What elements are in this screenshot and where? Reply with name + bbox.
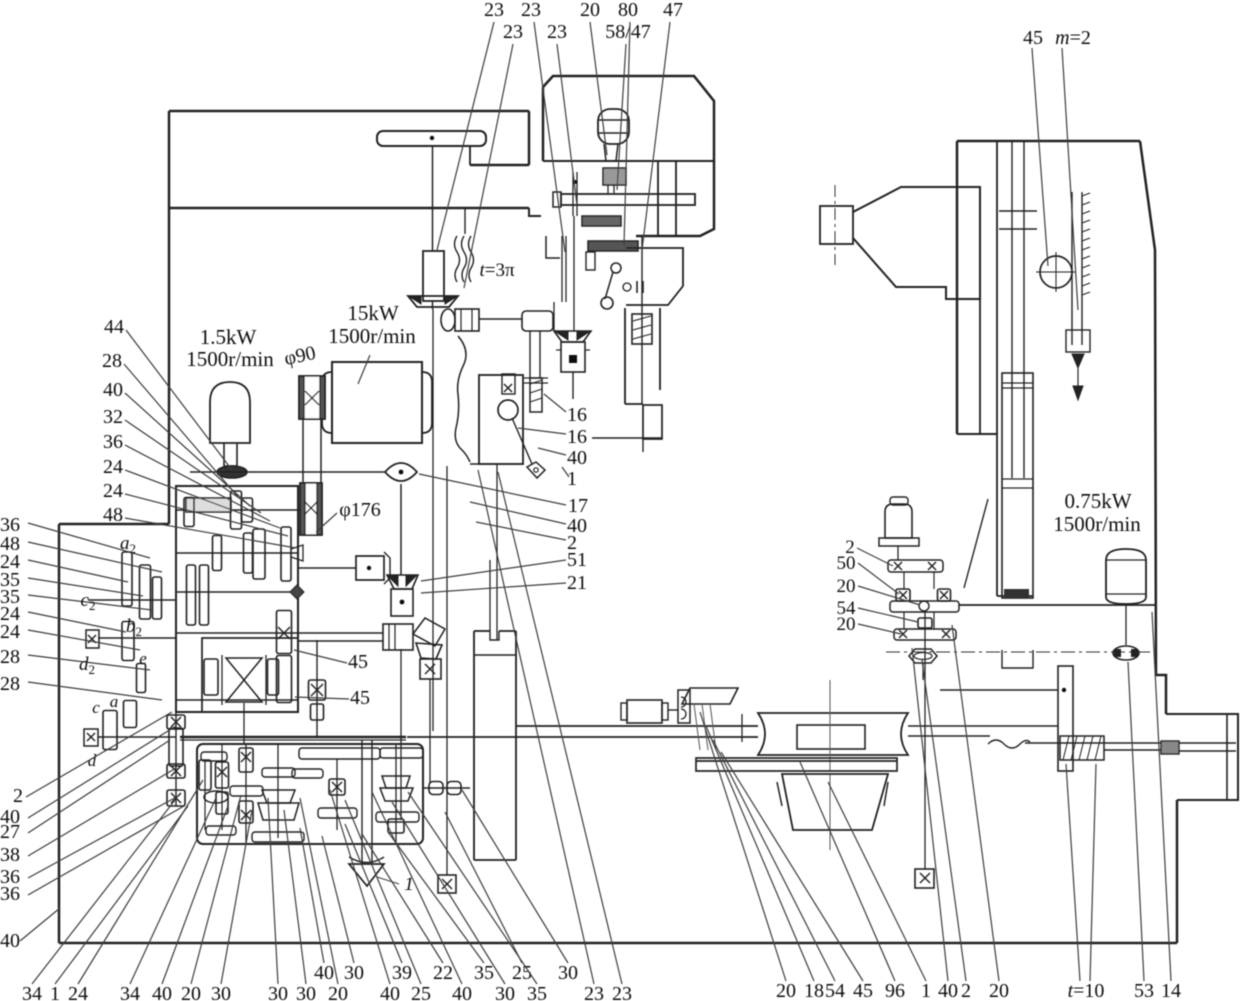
- svg-text:0.75kW: 0.75kW: [1064, 489, 1131, 513]
- svg-text:23: 23: [484, 0, 504, 21]
- svg-text:32: 32: [103, 406, 123, 428]
- svg-text:23: 23: [503, 21, 523, 43]
- svg-text:53: 53: [1134, 980, 1154, 1001]
- svg-text:21: 21: [567, 572, 587, 594]
- svg-text:48: 48: [103, 504, 123, 526]
- svg-text:1: 1: [921, 980, 931, 1001]
- svg-text:30: 30: [558, 962, 578, 984]
- svg-text:23: 23: [584, 983, 604, 1001]
- svg-text:40: 40: [452, 983, 472, 1001]
- svg-text:24: 24: [103, 456, 123, 478]
- svg-text:t=10: t=10: [1068, 980, 1105, 1001]
- svg-text:40: 40: [0, 930, 20, 952]
- svg-text:20: 20: [989, 980, 1009, 1001]
- svg-text:t=3π: t=3π: [479, 260, 514, 281]
- svg-text:40: 40: [152, 983, 172, 1001]
- svg-text:45: 45: [1023, 27, 1043, 49]
- svg-text:16: 16: [567, 426, 587, 448]
- svg-text:16: 16: [567, 404, 587, 426]
- svg-text:2: 2: [13, 785, 23, 807]
- svg-text:47: 47: [663, 0, 683, 21]
- svg-text:40: 40: [314, 962, 334, 984]
- svg-text:1: 1: [50, 983, 60, 1001]
- svg-text:28: 28: [0, 646, 20, 668]
- svg-text:35: 35: [527, 983, 547, 1001]
- svg-text:34: 34: [120, 983, 140, 1001]
- svg-text:20: 20: [181, 983, 201, 1001]
- svg-text:39: 39: [392, 962, 412, 984]
- svg-text:30: 30: [268, 983, 288, 1001]
- svg-text:96: 96: [885, 980, 905, 1001]
- svg-text:2: 2: [961, 980, 971, 1001]
- svg-text:1500r/min: 1500r/min: [328, 324, 416, 348]
- svg-text:23: 23: [612, 983, 632, 1001]
- svg-text:36: 36: [103, 431, 123, 453]
- svg-text:34: 34: [22, 983, 42, 1001]
- svg-text:25: 25: [411, 983, 431, 1001]
- svg-text:22: 22: [433, 962, 453, 984]
- svg-text:51: 51: [567, 549, 587, 571]
- svg-text:44: 44: [104, 316, 124, 338]
- svg-text:23: 23: [521, 0, 541, 21]
- svg-text:1500r/min: 1500r/min: [186, 347, 274, 371]
- svg-text:20: 20: [837, 576, 856, 597]
- svg-text:18: 18: [804, 980, 824, 1001]
- svg-text:1: 1: [567, 468, 577, 490]
- svg-text:58/47: 58/47: [605, 21, 651, 43]
- svg-text:24: 24: [0, 621, 20, 643]
- svg-text:30: 30: [344, 962, 364, 984]
- svg-text:40: 40: [380, 983, 400, 1001]
- svg-text:45: 45: [348, 651, 368, 673]
- svg-text:35: 35: [474, 962, 494, 984]
- svg-text:80: 80: [618, 0, 638, 21]
- svg-text:45: 45: [853, 980, 873, 1001]
- svg-text:1500r/min: 1500r/min: [1053, 512, 1141, 536]
- svg-text:17: 17: [568, 495, 588, 517]
- svg-text:28: 28: [0, 673, 20, 695]
- svg-text:40: 40: [567, 447, 587, 469]
- svg-text:c: c: [92, 698, 100, 717]
- svg-text:38: 38: [0, 844, 20, 866]
- svg-text:20: 20: [328, 983, 348, 1001]
- svg-text:24: 24: [103, 480, 123, 502]
- svg-text:40: 40: [938, 980, 958, 1001]
- svg-text:15kW: 15kW: [347, 301, 399, 325]
- svg-text:m=2: m=2: [1055, 27, 1091, 49]
- svg-text:a: a: [110, 692, 119, 711]
- svg-text:50: 50: [837, 553, 856, 574]
- svg-text:14: 14: [1161, 980, 1181, 1001]
- svg-text:30: 30: [296, 983, 316, 1001]
- svg-text:20: 20: [776, 980, 796, 1001]
- svg-text:36: 36: [0, 883, 20, 905]
- svg-text:54: 54: [825, 980, 845, 1001]
- svg-text:23: 23: [547, 21, 567, 43]
- svg-text:30: 30: [211, 983, 231, 1001]
- svg-text:40: 40: [103, 379, 123, 401]
- svg-text:45: 45: [350, 687, 370, 709]
- svg-text:20: 20: [580, 0, 600, 21]
- svg-text:30: 30: [495, 983, 515, 1001]
- svg-text:27: 27: [0, 821, 20, 843]
- svg-text:φ176: φ176: [339, 499, 381, 521]
- svg-text:e: e: [139, 649, 147, 668]
- svg-text:24: 24: [68, 983, 88, 1001]
- svg-text:28: 28: [102, 350, 122, 372]
- svg-text:1.5kW: 1.5kW: [200, 325, 257, 349]
- svg-text:20: 20: [837, 614, 856, 635]
